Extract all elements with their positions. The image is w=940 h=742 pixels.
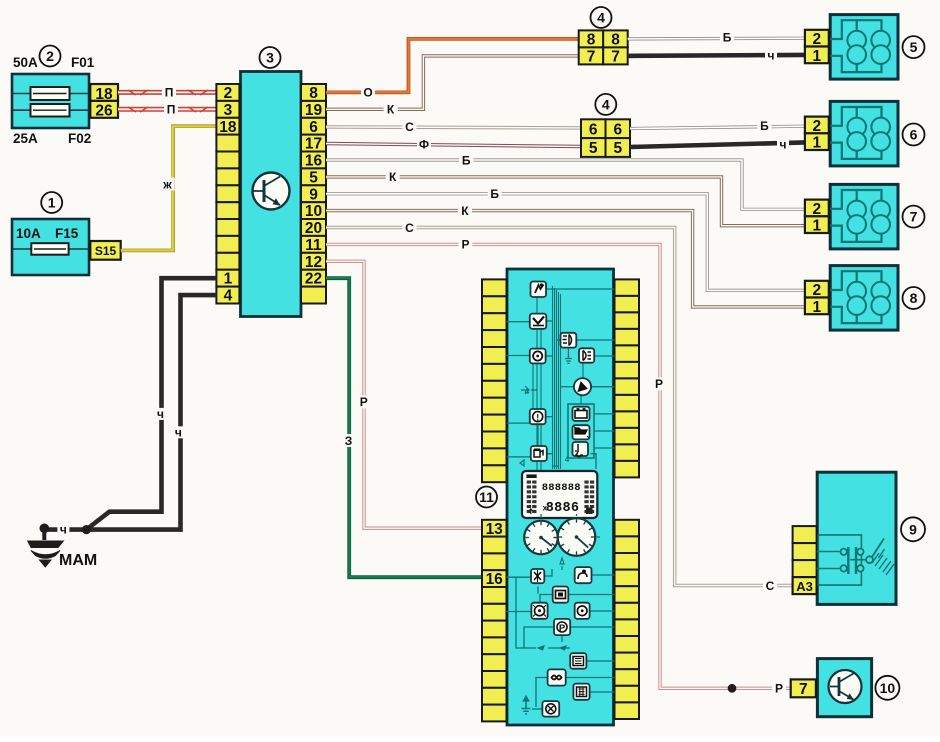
cluster icon D brake (530, 409, 546, 424)
junction on wire Р (728, 684, 737, 693)
svg-text:6: 6 (910, 127, 918, 143)
cluster icon ground mark (565, 352, 572, 363)
svg-text:8: 8 (587, 32, 596, 49)
wire ч from X3 pin 4 to ground (48, 295, 216, 537)
svg-text:9: 9 (909, 521, 917, 537)
lamp 6 connector pin 2 (805, 117, 829, 135)
svg-text:25A: 25A (13, 131, 38, 146)
lamp 8 connector pin 1 (805, 298, 829, 316)
svg-text:7: 7 (799, 681, 808, 698)
svg-text:4: 4 (597, 10, 605, 26)
svg-text:P: P (559, 623, 566, 634)
svg-text:К: К (461, 204, 469, 218)
connector S15 (90, 241, 120, 260)
svg-text:8: 8 (309, 85, 318, 102)
fuse box 2 body (12, 74, 89, 128)
wire О from pin 8 to connector 4a (326, 39, 579, 100)
wire З from pin 22 to cluster pin 16 (326, 278, 482, 577)
wire П from pin 26 to X3 pin 3 (118, 103, 216, 117)
lamp 6 label (903, 124, 925, 146)
junction on ground wire (82, 525, 91, 534)
wire Б from connector 4a to lamp 5 pin 2 (628, 30, 805, 44)
svg-text:3: 3 (266, 50, 274, 66)
cluster icon i8 lambda (548, 669, 566, 685)
lamp 8 body (830, 266, 898, 331)
cluster gauge left (524, 521, 558, 555)
svg-text:10: 10 (880, 680, 896, 696)
svg-text:4: 4 (565, 455, 570, 464)
lamp 7 label (903, 206, 925, 228)
cluster icon J oil (573, 425, 590, 439)
svg-text:1: 1 (812, 299, 821, 316)
lamp 6 bulbs symbol (830, 107, 890, 159)
lamp 7 bulbs symbol (830, 190, 890, 242)
cluster LCD display (522, 471, 597, 518)
cluster icon A airbag (531, 282, 547, 298)
svg-text:10A: 10A (16, 226, 41, 241)
svg-text:ч: ч (60, 523, 67, 537)
lamp 8 connector pin 2 (805, 281, 829, 299)
connector 4b pins 6,5 left (581, 119, 606, 157)
wire Б from connector 4b to lamp 6 pin 2 (630, 119, 805, 133)
cluster icon i9 (573, 684, 589, 700)
wire Р from pin 11 to component 10 (326, 238, 791, 696)
connector 4b label (595, 94, 616, 115)
wire Б from pin 16 to lamp 7 pin 2 (326, 153, 805, 209)
svg-text:ч: ч (768, 49, 775, 63)
wire ч from X3 pin 1 to ground (86, 278, 216, 529)
connector 4a pins 8,7 left (579, 30, 604, 65)
component 3 transistor symbol (253, 173, 290, 210)
svg-text:З: З (345, 434, 353, 448)
cluster internal wire bundle (553, 286, 561, 469)
cluster 11 left pins 13,16 group (482, 520, 507, 722)
component 3 right pins (301, 84, 326, 304)
fuse box 2 texts (13, 55, 95, 146)
wire Ф from pin 17 to connector 4b (326, 137, 581, 151)
lamp 5 bulbs symbol (830, 20, 890, 72)
svg-text:9: 9 (309, 186, 318, 203)
fuse F01 (31, 87, 70, 100)
svg-text:16: 16 (305, 153, 323, 170)
svg-text:19: 19 (305, 102, 323, 119)
lamp 8 bulbs symbol (830, 271, 890, 323)
component 10 label (875, 676, 899, 700)
relay 9 connector pin A3 (793, 577, 817, 594)
svg-text:4: 4 (602, 96, 610, 112)
svg-text:Ф: Ф (419, 137, 429, 151)
cluster icon F high beam (561, 333, 577, 348)
ground MAM text (59, 552, 97, 569)
svg-text:6: 6 (589, 121, 598, 138)
svg-text:К: К (389, 170, 397, 184)
cluster gauge right (558, 518, 596, 556)
relay 9 connector blank pins (793, 526, 817, 577)
wire С from pin 20 to relay 9 pin A3 (326, 221, 793, 593)
svg-text:12: 12 (305, 254, 322, 271)
fuse 1 body (12, 219, 89, 275)
svg-text:F15: F15 (55, 226, 79, 241)
fuse box 2 connector pin 18 (90, 84, 118, 103)
ground MAM symbol (28, 524, 64, 568)
svg-text:18: 18 (219, 119, 237, 136)
wire ч from connector 4a to lamp 5 pin 1 (628, 49, 805, 63)
wire К from pin 5 to lamp 7 pin 1 (326, 170, 805, 226)
lamp 5 body (830, 15, 898, 80)
svg-text:5: 5 (613, 140, 622, 157)
svg-text:Б: Б (760, 119, 769, 133)
lamp 5 connector pin 1 (805, 47, 829, 65)
fuse 1 texts (16, 226, 79, 241)
svg-text:ч: ч (780, 138, 787, 152)
component 3 left pins 2,3,18,1,4 (216, 84, 239, 305)
svg-text:2: 2 (224, 85, 233, 102)
relay 9 internal circuit (817, 535, 894, 585)
svg-text:16: 16 (486, 571, 504, 588)
cluster icon I battery (573, 407, 590, 421)
svg-text:F01: F01 (71, 55, 95, 70)
fuse box 2 connector pin 26 (90, 101, 118, 120)
fuse 1 label (41, 192, 62, 213)
component 10 body (817, 659, 871, 717)
svg-text:П: П (167, 103, 176, 117)
cluster icon E fuel (531, 446, 547, 461)
svg-text:1: 1 (48, 195, 56, 211)
svg-text:22: 22 (305, 271, 322, 288)
svg-text:S15: S15 (95, 244, 117, 258)
svg-text:Р: Р (655, 377, 663, 391)
component 10 transistor symbol (829, 670, 862, 703)
svg-text:С: С (405, 120, 414, 134)
svg-text:4: 4 (525, 387, 530, 396)
cluster internal links (507, 289, 615, 471)
cluster icon i2 seat (575, 567, 592, 583)
fuse box 2 label (40, 46, 61, 67)
svg-text:F02: F02 (68, 131, 91, 146)
svg-text:4: 4 (224, 288, 233, 305)
svg-text:С: С (766, 579, 775, 593)
svg-text:8: 8 (910, 290, 918, 306)
relay 9 body (817, 472, 896, 604)
svg-text:Б: Б (490, 187, 499, 201)
svg-text:7: 7 (910, 209, 918, 225)
gauge links (525, 514, 600, 538)
component 10 connector pin 7 (791, 679, 816, 698)
cluster 11 label (476, 487, 497, 508)
cluster 11 left pins top group (482, 279, 507, 482)
lamp 7 connector pin 1 (805, 216, 829, 234)
svg-text:ч: ч (175, 426, 182, 440)
svg-text:ч: ч (157, 407, 164, 421)
svg-text:888888: 888888 (542, 482, 581, 494)
cluster icon K temp (573, 442, 589, 457)
fuse F15 (31, 243, 68, 255)
svg-text:7: 7 (611, 49, 620, 66)
svg-text:5: 5 (589, 140, 598, 157)
wire К from pin 10 to lamp 8 pin 1 (326, 204, 805, 307)
cluster 11 body (507, 269, 614, 725)
cluster internal ground (522, 696, 531, 714)
svg-text:11: 11 (479, 489, 494, 505)
svg-text:К: К (387, 103, 395, 117)
svg-text:6: 6 (613, 121, 622, 138)
wire С from pin 6 to connector 4b (326, 120, 581, 134)
connector 4b pins 6,5 right (606, 119, 631, 157)
svg-text:!: ! (536, 412, 539, 422)
lamp 7 connector pin 2 (805, 200, 829, 218)
wire Б from pin 9 to lamp 8 pin 2 (326, 187, 805, 290)
lamp 7 body (830, 184, 898, 249)
svg-text:Б: Б (723, 30, 732, 44)
svg-text:11: 11 (305, 237, 322, 254)
wire П from pin 18 to X3 pin 2 (118, 86, 216, 100)
svg-text:ж: ж (162, 177, 172, 191)
wire ч from connector 4b to lamp 6 pin 1 (630, 138, 805, 152)
component 3 label (260, 47, 281, 68)
wire Р from pin 12 to cluster pin 13 (326, 261, 482, 528)
cluster icon frame (568, 404, 594, 458)
component 3 body (241, 72, 302, 317)
cluster 11 right pins bottom group (615, 520, 640, 719)
svg-text:8: 8 (611, 32, 620, 49)
svg-text:7: 7 (587, 49, 596, 66)
connector 4a pins 8,7 right (603, 30, 628, 65)
cluster icon i1 (531, 569, 544, 583)
cluster lower links (507, 558, 615, 709)
svg-text:3: 3 (224, 102, 233, 119)
svg-text:1: 1 (812, 218, 821, 235)
svg-text:П: П (165, 86, 174, 100)
cluster icon H turn (574, 378, 591, 395)
lamp 5 label (903, 36, 925, 58)
svg-text:MAM: MAM (59, 552, 97, 569)
relay 9 label (901, 517, 925, 541)
svg-text:С: С (405, 221, 414, 235)
svg-text:17: 17 (305, 136, 322, 153)
cluster icon B belt (530, 314, 547, 329)
svg-text:26: 26 (95, 103, 113, 120)
lamp 6 connector pin 1 (805, 133, 829, 151)
lamp 8 label (903, 287, 925, 309)
svg-text:Р: Р (461, 238, 469, 252)
svg-text:1: 1 (812, 48, 821, 65)
svg-text:20: 20 (305, 220, 322, 237)
svg-text:А3: А3 (796, 579, 813, 594)
svg-text:Р: Р (360, 395, 368, 409)
cluster icon G beam (579, 348, 594, 362)
svg-text:1: 1 (224, 271, 233, 288)
connector 4a label (591, 7, 612, 28)
svg-text:8886: 8886 (546, 501, 580, 516)
cluster icon C steering (530, 349, 546, 364)
cluster icon i6 parking (554, 619, 570, 635)
svg-text:10: 10 (305, 203, 322, 220)
svg-text:1: 1 (812, 135, 821, 152)
cluster 11 right pins top group (615, 279, 640, 477)
cluster icon i5 (575, 603, 590, 619)
cluster icon i10 (542, 701, 559, 717)
lamp 6 body (830, 101, 898, 165)
svg-text:5: 5 (910, 39, 918, 55)
cluster misc marks (520, 386, 570, 466)
svg-text:5: 5 (309, 169, 318, 186)
svg-text:50A: 50A (13, 55, 38, 70)
lamp 5 connector pin 2 (805, 30, 829, 48)
svg-text:Б: Б (462, 153, 471, 167)
cluster icon i4 (531, 603, 547, 619)
svg-text:О: О (363, 86, 372, 100)
svg-text:Р: Р (775, 682, 783, 696)
wire К from pin 19 to connector 4a (326, 56, 579, 117)
svg-text:6: 6 (309, 119, 318, 136)
fuse F02 (31, 104, 70, 117)
cluster icon i3 (553, 587, 569, 603)
cluster icon i7 (570, 653, 586, 669)
wire ж from S15 to X3 pin 18 (121, 126, 217, 250)
svg-text:13: 13 (486, 521, 504, 538)
svg-text:2: 2 (46, 48, 54, 64)
